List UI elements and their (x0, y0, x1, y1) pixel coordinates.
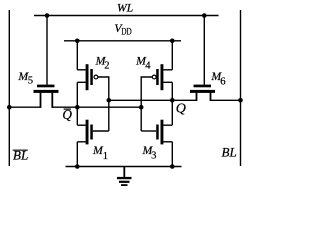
transistor M6 channel bar (190, 90, 215, 93)
transistor M4 PMOS bubble (152, 75, 156, 79)
label BL-bar overbar (13, 150, 28, 151)
wire Q-bar node vertical (M2 drain to M1 drain) (76, 82, 78, 125)
transistor M4 gate bar (156, 69, 159, 85)
svg-text:2: 2 (104, 61, 109, 72)
transistor M1 gate bar (90, 125, 93, 140)
junction dot rail B/V1 (107, 98, 112, 103)
wire M4 drain lead (163, 81, 172, 83)
wire rail A right segment (52, 106, 141, 108)
wire ground rail (66, 166, 182, 168)
transistor M4 PMOS channel bar (161, 64, 164, 90)
transistor M2 PMOS channel bar (86, 64, 89, 90)
wire M1 source to ground rail (76, 142, 78, 167)
wire ground tap (123, 167, 125, 178)
transistor M3 gate bar (156, 125, 159, 140)
wire rail B: M6 to Q to gates of M1/M2 (109, 99, 197, 101)
wire M1 source lead (77, 141, 85, 143)
wire M1 gate lead (93, 130, 109, 132)
svg-text:WL: WL (117, 2, 133, 15)
wire M3 gate lead (141, 130, 156, 132)
wire M3 source lead (163, 141, 172, 143)
junction dot ground rail/M1 source (75, 164, 80, 169)
wire M6 right stub (210, 93, 212, 102)
junction dot BL/M6 (238, 98, 243, 103)
wire M5 left stub (40, 93, 42, 108)
svg-text:DD: DD (121, 27, 131, 38)
wire Q node vertical upper (M4 source to VDD) (171, 41, 173, 70)
wire M1 drain lead (77, 124, 85, 126)
junction dot Q-bar/rail A (75, 105, 80, 110)
junction dot WL/M6 gate (202, 13, 207, 18)
wire M4 source lead (163, 69, 172, 71)
transistor M2 gate bar (90, 69, 93, 85)
wire M5 right stub (51, 93, 53, 108)
junction dot rail A/V2 (139, 105, 144, 110)
wire M3 source to ground rail (171, 142, 173, 167)
wire M5 gate to WL (46, 16, 48, 85)
junction dot VDD/Q (170, 39, 175, 44)
wire BL-bar bit line (left vertical) (8, 10, 10, 166)
transistor M1 NMOS channel bar (86, 120, 89, 145)
ground symbol bar 1 (117, 177, 132, 179)
node Q-bar overbar (64, 109, 71, 110)
wire cross-couple V1 (Q to gates of M1,M2) (98, 77, 109, 131)
ground symbol bar 2 (119, 181, 130, 183)
transistor M3 NMOS channel bar (161, 120, 164, 145)
wire BL bit line (right vertical) (240, 10, 242, 166)
wire rail A: M5 to Q-bar to gates of M3/M4 (9, 106, 40, 108)
junction dot Q/rail B (170, 98, 175, 103)
wire M3 drain lead (163, 124, 172, 126)
svg-text:6: 6 (220, 76, 225, 87)
transistor M5 pass (horizontal NMOS) gate bar (37, 85, 55, 88)
svg-text:5: 5 (28, 75, 33, 86)
wire WL word line (34, 15, 219, 17)
svg-text:3: 3 (151, 151, 156, 162)
junction dot BL-bar/M5 (7, 105, 12, 110)
svg-text:1: 1 (103, 151, 108, 162)
junction dot ground rail/M3 source (170, 164, 175, 169)
wire Q node vertical (M4 drain to M3 drain) (171, 82, 173, 125)
wire M6 left stub (196, 93, 198, 102)
wire VDD rail (64, 40, 181, 42)
wire M2 drain lead (77, 81, 85, 83)
transistor M5 channel bar (34, 90, 59, 93)
wire M2 source lead (77, 69, 85, 71)
junction dot VDD/Q-bar (75, 39, 80, 44)
ground symbol bar 3 (121, 184, 128, 186)
wire Q-bar node vertical upper (M2 source to VDD) (76, 41, 78, 70)
junction dot WL/M5 gate (45, 13, 50, 18)
wire rail B right segment (M6 to BL) (211, 99, 241, 101)
wire M6 gate to WL (203, 16, 205, 85)
svg-text:4: 4 (145, 61, 151, 72)
transistor M2 PMOS bubble (94, 75, 98, 79)
svg-text:BL: BL (222, 146, 237, 160)
transistor M6 pass (horizontal NMOS) gate bar (194, 85, 212, 88)
wire cross-couple V2 (Q-bar to gates of M3,M4) (141, 77, 152, 131)
svg-text:Q: Q (176, 102, 186, 117)
